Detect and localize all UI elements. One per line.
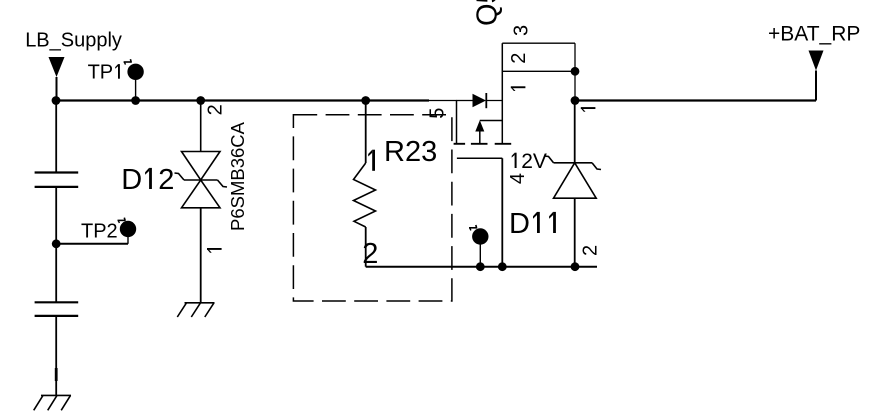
pin 5 lead (428, 100, 457, 102)
svg-text:5: 5 (427, 108, 449, 119)
svg-text:P6SMB36CA: P6SMB36CA (227, 121, 248, 231)
value 12V of D11 (515, 153, 517, 168)
svg-text:R23: R23 (384, 136, 437, 168)
junction pin2-tie (571, 67, 580, 76)
pin 3 lead (502, 42, 575, 44)
svg-text:LB_Supply: LB_Supply (25, 29, 122, 51)
svg-text:TP2: TP2 (81, 221, 118, 243)
pin 1 of TP (469, 227, 477, 229)
pin 1 of D12 (207, 248, 222, 250)
junction TP-bottom wire (476, 262, 485, 271)
svg-text:Q5: Q5 (472, 0, 504, 26)
junction pin1-tie-bus (571, 96, 580, 105)
power port +BAT_RP (768, 22, 860, 100)
resistor R23 (354, 101, 376, 267)
svg-text:D: D (121, 164, 142, 196)
svg-text:+BAT_RP: +BAT_RP (768, 22, 860, 45)
test point TP2 (56, 221, 136, 244)
svg-text:2: 2 (158, 164, 174, 196)
capacitor upper-left (35, 101, 79, 244)
source lead (456, 101, 458, 144)
svg-text:2: 2 (580, 245, 602, 256)
svg-text:TP: TP (88, 62, 114, 84)
junction TP2-wire (52, 239, 61, 248)
junction D11-bottom wire (571, 262, 580, 271)
junction R23-bus (361, 96, 370, 105)
junction gate-bottom wire (498, 262, 507, 271)
pin 1 of Q5 (511, 86, 526, 88)
transistor Q5 (428, 43, 575, 267)
junction at LB_Supply corner (52, 96, 61, 105)
test point TP1 (88, 62, 144, 101)
channel segment 3 (495, 143, 512, 145)
dashed option box (293, 115, 452, 301)
pin 1 of R23 (372, 150, 375, 171)
svg-text:4: 4 (507, 173, 529, 184)
wire stub thick segment (55, 368, 58, 381)
ground bottom-left (34, 395, 71, 410)
test point TP (pin 1) (472, 228, 488, 266)
junction D12-bus (196, 96, 205, 105)
svg-text:2: 2 (508, 53, 530, 64)
ground under D12 (177, 303, 214, 317)
pin 2 lead (502, 70, 575, 72)
svg-text:2V: 2V (521, 150, 547, 173)
body diode cathode wire (486, 100, 502, 102)
bulk arrow (479, 131, 481, 144)
junction TP1-bus (131, 96, 140, 105)
svg-text:2: 2 (362, 238, 378, 270)
channel segment 2 (471, 143, 488, 145)
wire top bus left segment (56, 99, 429, 101)
svg-text:D: D (509, 208, 530, 240)
channel segment 1 (454, 143, 466, 145)
svg-text:2: 2 (205, 104, 227, 115)
capacitor lower-left (35, 244, 79, 396)
gate lead (501, 158, 503, 266)
wire bottom net (366, 266, 597, 268)
wire top bus right segment (575, 99, 816, 101)
pin 1 of D11 (581, 107, 596, 109)
pins tie bar (574, 43, 576, 100)
pin 1 of TP2 (118, 219, 126, 221)
gate bar (457, 157, 502, 159)
power port LB_Supply (25, 29, 122, 100)
TVS diode D12 (175, 101, 228, 303)
drain lead (501, 43, 503, 144)
pin 1 of TP1 (124, 61, 132, 63)
body diode (473, 94, 487, 108)
svg-text:3: 3 (511, 25, 533, 36)
body diode anode wire (457, 100, 473, 102)
zener diode D11 (545, 101, 602, 267)
